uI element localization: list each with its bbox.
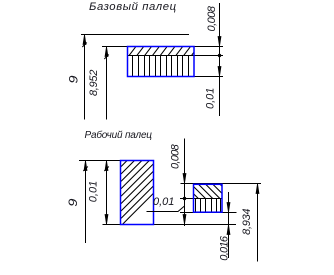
- strip boundary line (top drawing): [128, 55, 224, 57]
- extension line B strip boundary (bottom drawing): [180, 198, 222, 200]
- big tolerance box diagonal hatch (bottom drawing): [121, 161, 154, 225]
- svg-text:9: 9: [68, 75, 80, 84]
- svg-text:Рабочий палец: Рабочий палец: [85, 129, 153, 141]
- dimension line 0,016 (bottom drawing): [227, 192, 230, 258]
- dimension line 8,952: [104, 47, 109, 120]
- svg-text:8,934: 8,934: [241, 209, 253, 235]
- nominal extension line (bottom drawing): [79, 160, 121, 162]
- right dimension line (top drawing): [218, 3, 221, 116]
- svg-text:0,01: 0,01: [205, 88, 217, 109]
- box border blue (top drawing): [128, 47, 195, 77]
- dimension line 9 (top drawing): [82, 35, 87, 120]
- big box bottom extension (bottom drawing): [103, 224, 237, 226]
- svg-text:0,008: 0,008: [170, 143, 182, 169]
- box bottom extension right (top drawing): [194, 76, 223, 78]
- nominal line 9 (top drawing): [81, 34, 189, 36]
- big tolerance box blue border (bottom drawing): [121, 161, 154, 225]
- svg-text:0,008: 0,008: [206, 5, 218, 31]
- dimension line 0,01 left (bottom drawing): [104, 161, 109, 225]
- svg-text:9: 9: [68, 198, 80, 207]
- svg-text:Базовый палец: Базовый палец: [89, 1, 177, 13]
- extension line C small box bottom (bottom drawing): [180, 212, 237, 214]
- small tolerance box upper strip back-diagonal hatch: [194, 184, 223, 199]
- svg-text:0,01: 0,01: [153, 196, 174, 208]
- svg-text:0,016: 0,016: [218, 235, 230, 261]
- extension line box top (top drawing): [102, 46, 223, 48]
- tolerance box (top drawing): upper strip diagonal hatch: [129, 47, 194, 55]
- dimension line 9 (bottom drawing): [83, 161, 88, 244]
- small tolerance box blue border: [194, 184, 223, 212]
- leader line for 0,01 (bottom drawing): [147, 206, 185, 212]
- svg-text:8,952: 8,952: [88, 70, 100, 96]
- small tolerance box lower strip vertical hatch: [196, 199, 221, 212]
- dimension line 0,008 (bottom drawing): [183, 139, 186, 227]
- dimension line 8,934 (bottom drawing): [256, 184, 259, 262]
- extension line A small box top (bottom drawing): [181, 183, 262, 185]
- svg-text:0,01: 0,01: [87, 181, 99, 202]
- tolerance box (top drawing): lower part vertical hatch: [133, 56, 189, 76]
